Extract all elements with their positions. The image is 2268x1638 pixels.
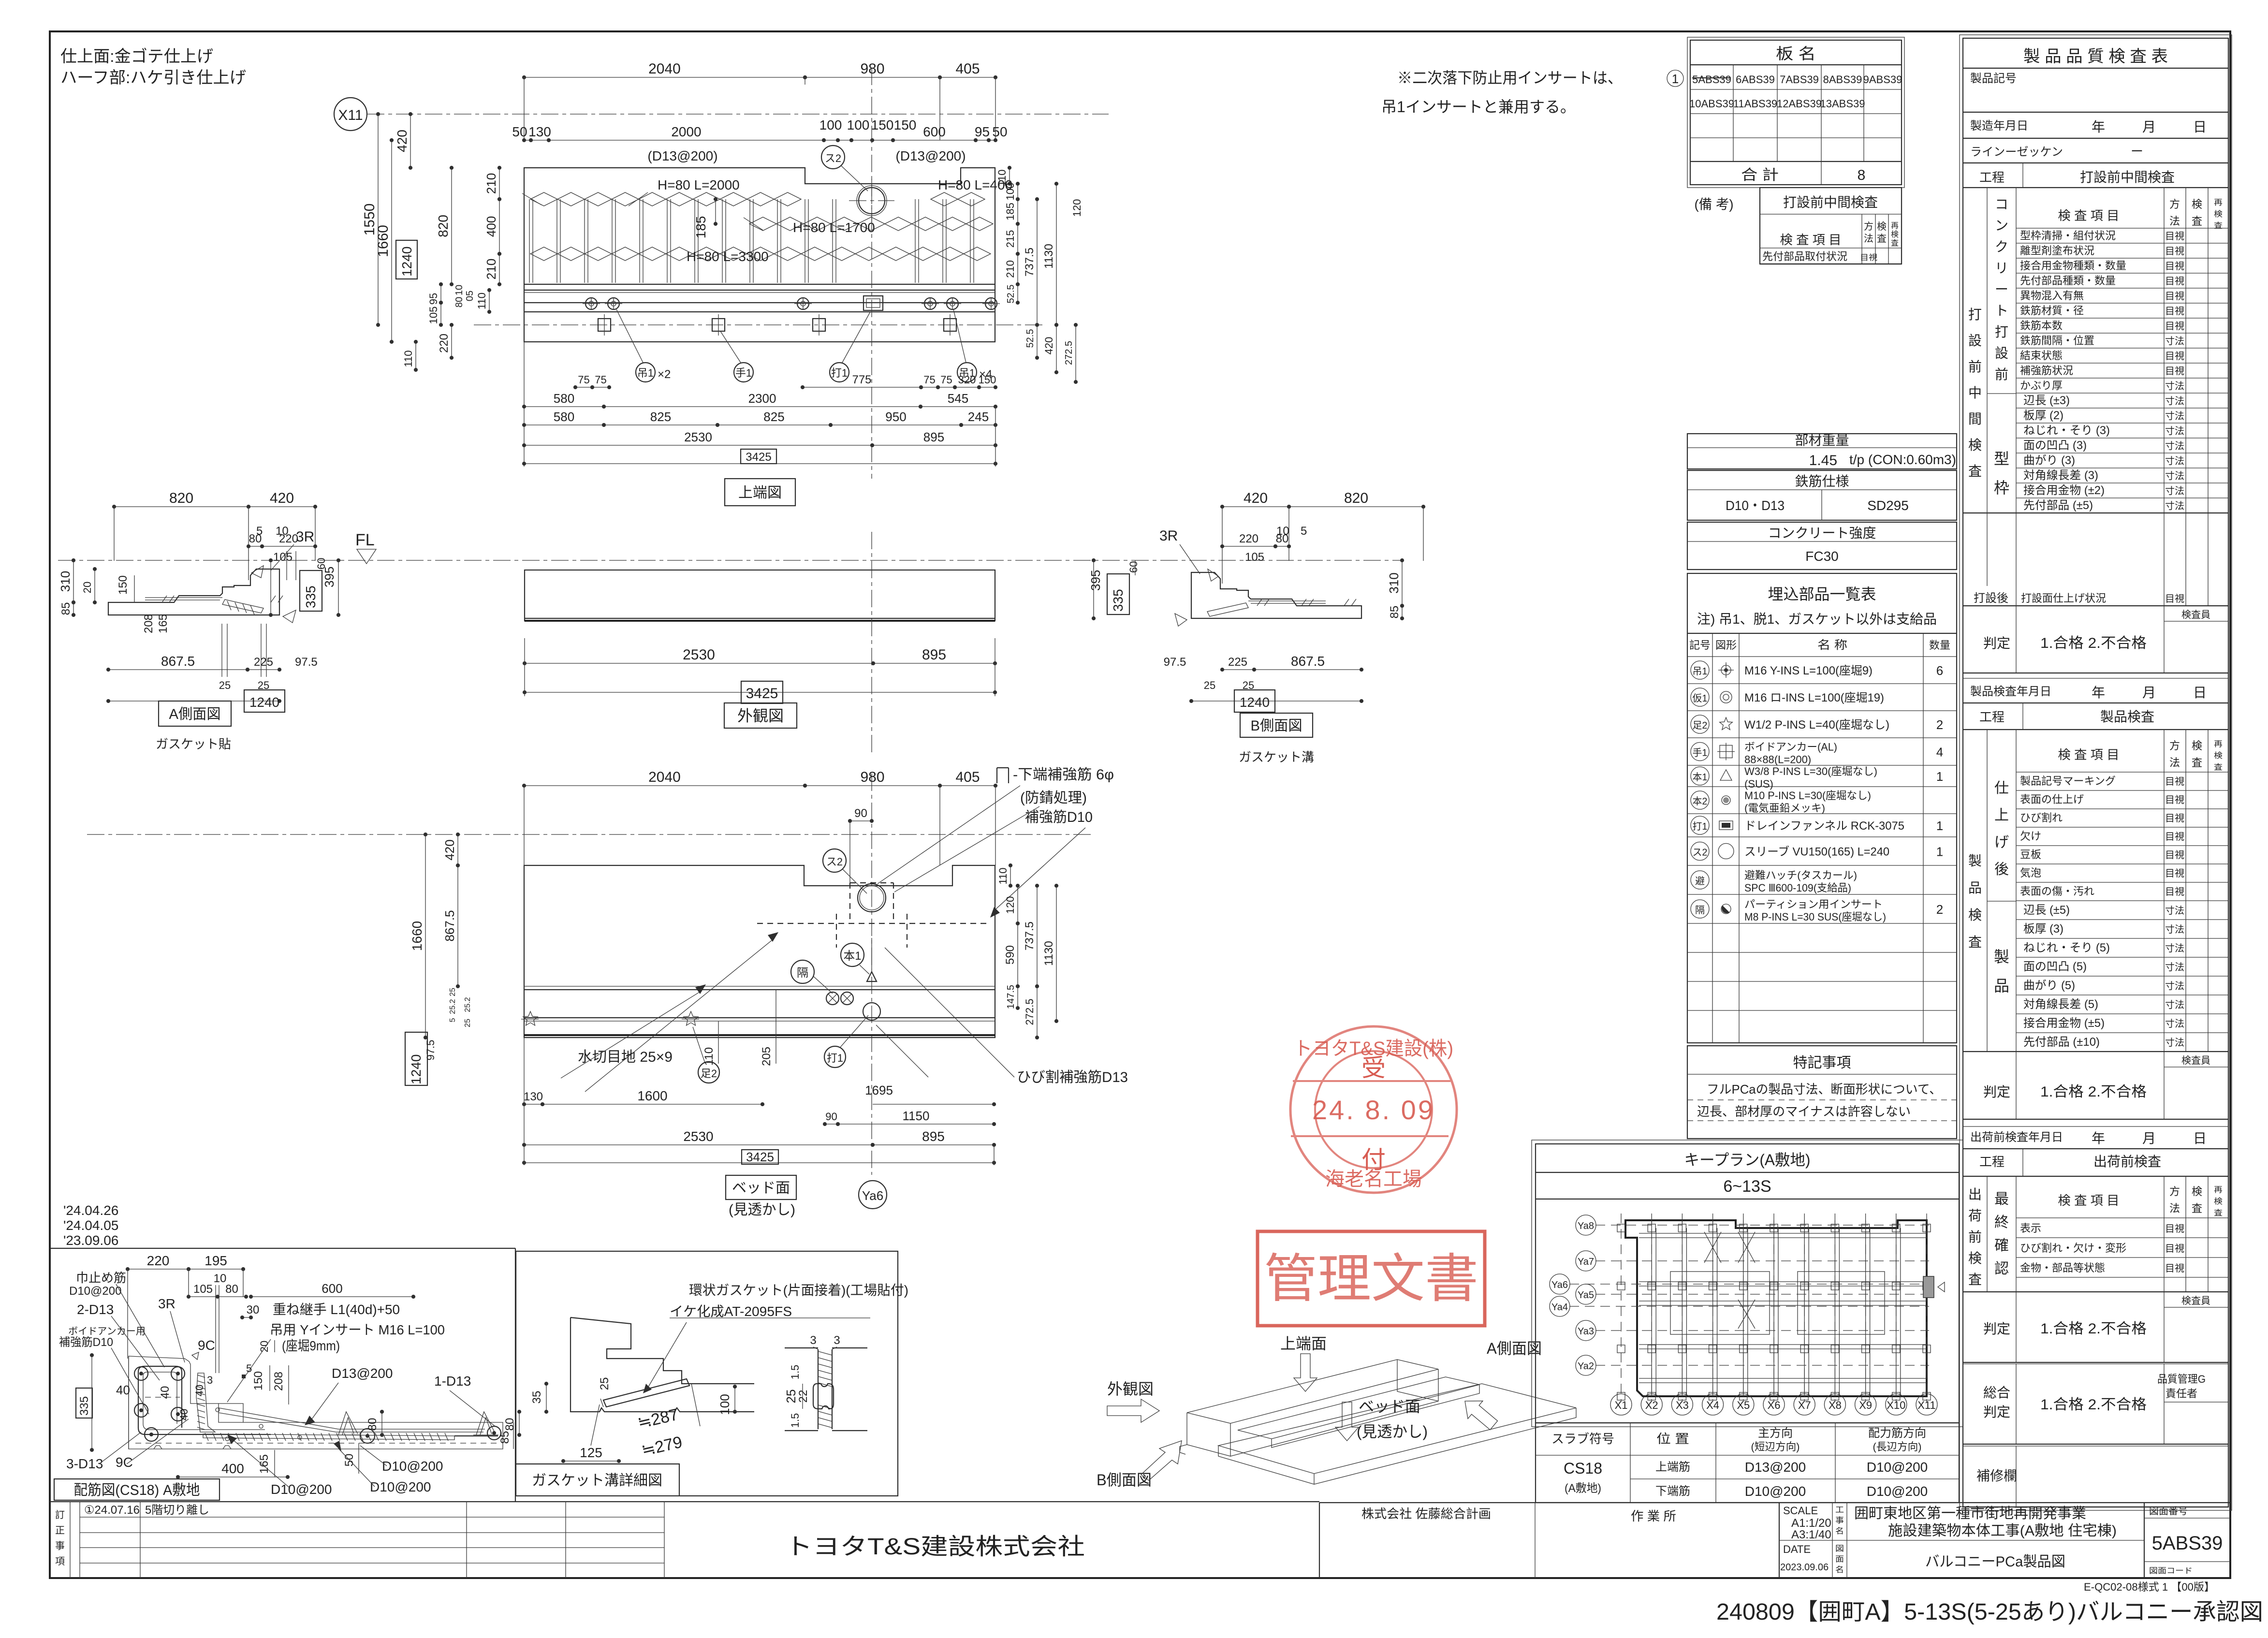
svg-text:上端筋: 上端筋 <box>1655 1461 1690 1474</box>
svg-text:12ABS39: 12ABS39 <box>1777 98 1822 110</box>
B-side half lines <box>1248 600 1326 601</box>
svg-text:目視: 目視 <box>2165 1243 2184 1254</box>
vertical labels matrix1 <box>1987 188 1988 586</box>
A-side top dims <box>114 506 249 507</box>
svg-text:1: 1 <box>1936 769 1943 784</box>
svg-text:75: 75 <box>578 374 589 386</box>
slab schedule table <box>1536 1423 1959 1503</box>
bottom band square symbols <box>598 319 611 331</box>
svg-text:1130: 1130 <box>1042 941 1055 966</box>
svg-text:環状ガスケット(片面接着)(工場貼付): 環状ガスケット(片面接着)(工場貼付) <box>689 1283 908 1298</box>
A-side bottom dims <box>108 669 248 670</box>
svg-text:寸法: 寸法 <box>2165 962 2184 973</box>
svg-text:寸法: 寸法 <box>2165 380 2184 392</box>
svg-text:工程: 工程 <box>1979 710 2005 724</box>
svg-text:867.5: 867.5 <box>1291 654 1325 669</box>
svg-text:訂: 訂 <box>55 1509 65 1521</box>
bed view centerlines <box>87 834 1093 835</box>
svg-text:(長辺方向): (長辺方向) <box>1873 1441 1922 1453</box>
svg-text:目視: 目視 <box>2165 813 2184 824</box>
svg-text:ス2: ス2 <box>1693 848 1708 858</box>
elevation label box <box>724 703 797 728</box>
svg-text:895: 895 <box>922 647 946 663</box>
svg-text:目視: 目視 <box>2165 366 2184 377</box>
bed bottom dims <box>524 1104 542 1105</box>
rebar top dims <box>128 1269 189 1270</box>
X11 grid circle <box>334 98 367 131</box>
plan hatch vertical ribs <box>529 199 530 283</box>
svg-text:検: 検 <box>2214 210 2223 219</box>
gasket cross-section shape <box>813 1384 834 1409</box>
svg-text:DATE: DATE <box>1783 1543 1811 1555</box>
plan right dims <box>1009 168 1010 184</box>
svg-text:(A敷地): (A敷地) <box>1565 1482 1601 1495</box>
svg-text:272.5: 272.5 <box>1064 341 1074 365</box>
svg-text:5階切り離し: 5階切り離し <box>145 1504 209 1517</box>
svg-text:Ya3: Ya3 <box>1578 1326 1594 1337</box>
svg-text:1.5: 1.5 <box>789 1365 801 1380</box>
svg-text:1600: 1600 <box>637 1088 667 1103</box>
svg-text:100: 100 <box>717 1394 732 1415</box>
svg-text:M8 P-INS L=30 SUS(座堀なし): M8 P-INS L=30 SUS(座堀なし) <box>1744 911 1886 923</box>
svg-text:ガスケット溝詳細図: ガスケット溝詳細図 <box>532 1473 662 1489</box>
svg-text:20: 20 <box>81 582 93 593</box>
svg-text:吊1: 吊1 <box>637 367 654 379</box>
svg-text:M16 Y-INS L=100(座堀9): M16 Y-INS L=100(座堀9) <box>1744 664 1873 677</box>
svg-text:打: 打 <box>1968 307 1982 322</box>
svg-text:2040: 2040 <box>648 769 681 785</box>
bottom bars with hatch strip <box>203 1434 454 1440</box>
plan label box 上端図 <box>725 479 795 506</box>
svg-text:位 置: 位 置 <box>1656 1432 1689 1446</box>
svg-text:950: 950 <box>885 409 906 424</box>
gasket detail label box <box>516 1464 679 1496</box>
svg-text:X11: X11 <box>338 107 363 123</box>
svg-text:420: 420 <box>395 130 410 152</box>
svg-text:150: 150 <box>252 1371 265 1390</box>
svg-text:5: 5 <box>246 1362 252 1375</box>
svg-text:75: 75 <box>923 374 935 386</box>
svg-text:目視: 目視 <box>2165 306 2184 317</box>
svg-text:1: 1 <box>1936 845 1943 859</box>
A-side label box <box>159 701 231 726</box>
svg-text:FL: FL <box>355 531 375 549</box>
svg-text:記号: 記号 <box>1689 639 1711 651</box>
svg-text:囲町東地区第一種市街地再開発事業: 囲町東地区第一種市街地再開発事業 <box>1854 1506 2086 1521</box>
svg-text:巾止め筋: 巾止め筋 <box>76 1271 126 1285</box>
svg-text:検: 検 <box>1877 221 1887 232</box>
svg-text:85: 85 <box>59 602 73 615</box>
svg-text:面の凹凸 (5): 面の凹凸 (5) <box>2023 960 2087 973</box>
svg-text:配筋図(CS18) A敷地: 配筋図(CS18) A敷地 <box>74 1482 200 1498</box>
svg-text:寸法: 寸法 <box>2165 470 2184 482</box>
svg-text:辺長 (±5): 辺長 (±5) <box>2023 904 2070 917</box>
svg-text:補強筋D10: 補強筋D10 <box>59 1336 113 1349</box>
svg-text:90: 90 <box>825 1111 837 1123</box>
svg-text:(見透かし): (見透かし) <box>1357 1423 1428 1440</box>
svg-text:方: 方 <box>2169 740 2180 752</box>
svg-text:D10@200: D10@200 <box>382 1459 443 1474</box>
svg-text:査: 査 <box>2192 1202 2202 1214</box>
spacer circles on bottom bars <box>360 1429 375 1443</box>
rebar stirrup inner <box>143 1372 265 1430</box>
svg-text:法: 法 <box>2169 1202 2180 1214</box>
key plan Ya grid <box>1595 1225 1929 1226</box>
svg-text:D10・D13: D10・D13 <box>1726 498 1785 513</box>
elevation centerline vert <box>871 532 872 754</box>
svg-text:980: 980 <box>860 769 884 785</box>
svg-text:10ABS39: 10ABS39 <box>1689 98 1734 110</box>
svg-text:辺長 (±3): 辺長 (±3) <box>2023 394 2070 407</box>
svg-text:バルコニーPCa製品図: バルコニーPCa製品図 <box>1925 1554 2065 1570</box>
svg-text:認: 認 <box>1994 1261 2009 1277</box>
svg-text:※二次落下防止用インサートは、: ※二次落下防止用インサートは、 <box>1397 69 1623 87</box>
svg-text:離型剤塗布状況: 離型剤塗布状況 <box>2020 245 2094 257</box>
svg-text:1240: 1240 <box>409 1054 424 1084</box>
svg-text:板厚 (3): 板厚 (3) <box>2023 922 2063 936</box>
svg-text:X9: X9 <box>1859 1399 1872 1411</box>
svg-text:配力筋方向: 配力筋方向 <box>1868 1427 1926 1440</box>
svg-text:コンクリート強度: コンクリート強度 <box>1768 526 1876 541</box>
svg-text:製 品 品 質 検 査 表: 製 品 品 質 検 査 表 <box>2023 47 2168 66</box>
svg-text:水切目地 25×9: 水切目地 25×9 <box>578 1049 673 1065</box>
key plan building outline <box>1625 1220 1927 1396</box>
svg-text:寸法: 寸法 <box>2165 336 2184 347</box>
svg-text:査: 査 <box>1891 239 1899 248</box>
svg-text:鉄筋本数: 鉄筋本数 <box>2020 320 2063 332</box>
svg-text:590: 590 <box>1004 945 1017 965</box>
chairs <box>338 1412 358 1435</box>
svg-text:X1: X1 <box>1615 1399 1628 1411</box>
svg-text:図面番号: 図面番号 <box>2149 1506 2188 1517</box>
svg-text:注) 吊1、脱1、ガスケット以外は支給品: 注) 吊1、脱1、ガスケット以外は支給品 <box>1697 612 1937 627</box>
bed leader 本1 <box>841 943 864 966</box>
svg-text:検査員: 検査員 <box>2181 1055 2210 1066</box>
svg-text:120: 120 <box>1071 199 1083 217</box>
drain rect symbol <box>863 296 883 310</box>
svg-text:板厚 (2): 板厚 (2) <box>2023 409 2063 422</box>
FL centerline across sheet <box>58 560 1402 561</box>
svg-text:100: 100 <box>819 117 842 132</box>
bed sleeve circle <box>858 884 886 912</box>
svg-text:対角線長差 (3): 対角線長差 (3) <box>2023 469 2098 482</box>
svg-text:X7: X7 <box>1798 1399 1811 1411</box>
svg-text:2-D13: 2-D13 <box>77 1302 114 1317</box>
svg-text:420: 420 <box>1043 337 1055 355</box>
svg-text:1150: 1150 <box>903 1109 930 1123</box>
designer cell <box>1535 1503 1536 1578</box>
svg-text:D10@200: D10@200 <box>370 1479 431 1494</box>
svg-text:表面の仕上げ: 表面の仕上げ <box>2020 793 2084 805</box>
svg-text:'23.09.06: '23.09.06 <box>63 1233 118 1248</box>
svg-text:目視: 目視 <box>2165 261 2184 272</box>
svg-text:M16 ロ-INS L=100(座堀19): M16 ロ-INS L=100(座堀19) <box>1744 691 1884 704</box>
svg-text:吊1: 吊1 <box>1693 666 1708 677</box>
leader circle 吊1x2 <box>636 363 655 382</box>
svg-text:寸法: 寸法 <box>2165 943 2184 954</box>
svg-text:(座堀9mm): (座堀9mm) <box>282 1338 340 1353</box>
judge row 3 <box>2164 1307 2228 1308</box>
svg-text:作 業 所: 作 業 所 <box>1631 1509 1676 1523</box>
svg-text:検: 検 <box>2192 1185 2202 1198</box>
svg-text:間: 間 <box>1968 411 1982 426</box>
svg-text:225: 225 <box>254 656 273 669</box>
svg-text:X3: X3 <box>1676 1399 1689 1411</box>
svg-text:50: 50 <box>512 124 527 139</box>
svg-text:査: 査 <box>1968 935 1982 950</box>
svg-text:ひび割れ・欠け・変形: ひび割れ・欠け・変形 <box>2020 1242 2126 1254</box>
svg-text:165: 165 <box>157 614 170 633</box>
svg-text:先付部品 (±5): 先付部品 (±5) <box>2023 499 2093 512</box>
svg-text:85: 85 <box>1388 606 1401 619</box>
svg-text:再: 再 <box>2214 1186 2223 1194</box>
svg-text:品質管理G: 品質管理G <box>2157 1373 2206 1385</box>
B-side section profile <box>1191 572 1361 618</box>
svg-text:20: 20 <box>258 1341 270 1352</box>
svg-text:法: 法 <box>2169 757 2180 769</box>
svg-text:製品記号: 製品記号 <box>1970 72 2017 85</box>
svg-text:荷: 荷 <box>1968 1208 1982 1223</box>
svg-text:3R: 3R <box>1159 528 1178 544</box>
svg-text:24. 8. 09: 24. 8. 09 <box>1312 1095 1435 1125</box>
svg-text:25: 25 <box>1204 679 1215 691</box>
svg-text:737.5: 737.5 <box>1023 248 1036 277</box>
bed leader 足2 <box>698 1062 719 1083</box>
svg-text:埋込部品一覧表: 埋込部品一覧表 <box>1768 585 1876 603</box>
svg-text:ク: ク <box>1995 239 2008 254</box>
svg-text:Ya6: Ya6 <box>1551 1280 1568 1290</box>
plan left dims 420/820 etc <box>410 114 411 168</box>
svg-text:品: 品 <box>1994 977 2009 994</box>
svg-text:9ABS39: 9ABS39 <box>1863 73 1902 86</box>
svg-text:80: 80 <box>503 1418 516 1431</box>
rebar label box <box>54 1479 219 1500</box>
svg-text:775: 775 <box>852 373 871 386</box>
svg-text:ひび割補強筋D13: ひび割補強筋D13 <box>1017 1069 1128 1085</box>
plan top dim row 2040/980/405 <box>524 77 805 78</box>
svg-text:前: 前 <box>1968 1229 1982 1244</box>
B-side label box <box>1240 713 1313 737</box>
svg-text:目視: 目視 <box>2165 321 2184 332</box>
svg-text:目視: 目視 <box>2165 776 2184 787</box>
svg-text:品: 品 <box>1968 880 1982 895</box>
plan band lines <box>524 284 995 285</box>
svg-text:2530: 2530 <box>683 647 715 663</box>
svg-text:1: 1 <box>1672 72 1679 86</box>
svg-text:30: 30 <box>247 1303 260 1316</box>
svg-text:鉄筋仕様: 鉄筋仕様 <box>1795 474 1849 489</box>
bed view outline with top notch <box>524 865 995 1038</box>
svg-text:(D13@200): (D13@200) <box>647 148 717 163</box>
svg-text:25: 25 <box>784 1389 798 1404</box>
key plan product location marker <box>1923 1276 1934 1298</box>
svg-text:110: 110 <box>702 1047 716 1066</box>
gasket strip slanted <box>603 1379 689 1407</box>
svg-text:335: 335 <box>1111 589 1126 612</box>
svg-text:外観図: 外観図 <box>1107 1380 1154 1398</box>
svg-text:リ: リ <box>1995 261 2008 276</box>
svg-text:名: 名 <box>1835 1527 1844 1536</box>
svg-text:1.45: 1.45 <box>1809 453 1837 468</box>
leader circle 吊1x4 <box>957 363 977 382</box>
svg-text:205: 205 <box>760 1047 773 1066</box>
svg-text:5ABS39: 5ABS39 <box>1692 73 1731 86</box>
svg-text:検: 検 <box>2214 751 2223 760</box>
svg-text:110: 110 <box>476 292 488 309</box>
svg-text:25.2: 25.2 <box>464 997 472 1012</box>
svg-text:ス2: ス2 <box>825 152 841 164</box>
isometric slab pictorial <box>1218 1384 1576 1474</box>
svg-text:225: 225 <box>1228 656 1247 669</box>
svg-text:SCALE: SCALE <box>1783 1505 1818 1517</box>
svg-text:25: 25 <box>598 1377 611 1390</box>
svg-text:主方向: 主方向 <box>1758 1427 1793 1440</box>
svg-text:D10@200: D10@200 <box>1745 1484 1806 1499</box>
svg-text:ボイドアンカー用: ボイドアンカー用 <box>68 1326 146 1337</box>
svg-text:E-QC02-08様式 1 【00版】: E-QC02-08様式 1 【00版】 <box>2084 1581 2215 1593</box>
svg-text:方: 方 <box>2169 198 2180 210</box>
svg-text:検: 検 <box>1968 907 1982 922</box>
svg-text:1.合格 2.不合格: 1.合格 2.不合格 <box>2040 635 2147 651</box>
A-side gasket strip <box>222 600 263 613</box>
total row <box>1690 161 1902 162</box>
svg-text:検査員: 検査員 <box>2181 1295 2210 1306</box>
svg-text:手1: 手1 <box>1693 747 1708 759</box>
rebar bar circles <box>134 1367 148 1380</box>
svg-text:検査員: 検査員 <box>2181 609 2210 620</box>
svg-text:査: 査 <box>2192 757 2202 769</box>
svg-text:150: 150 <box>871 117 894 132</box>
bed top dims <box>524 785 805 786</box>
svg-text:97.5: 97.5 <box>1164 656 1186 669</box>
svg-text:年: 年 <box>2092 119 2105 134</box>
key plan interior walls <box>1639 1237 1927 1238</box>
svg-text:補強筋状況: 補強筋状況 <box>2020 365 2073 377</box>
gasket joint detail right <box>818 1349 832 1429</box>
leader circle 手1 <box>734 363 753 382</box>
bed right dims <box>1010 865 1011 886</box>
svg-text:吊用 Yインサート M16 L=100: 吊用 Yインサート M16 L=100 <box>270 1322 445 1337</box>
B-side top dims <box>1222 506 1289 507</box>
svg-text:イケ化成AT-2095FS: イケ化成AT-2095FS <box>670 1304 792 1319</box>
svg-text:(SUS): (SUS) <box>1744 778 1773 790</box>
svg-text:6ABS39: 6ABS39 <box>1736 73 1775 86</box>
svg-text:ベッド面: ベッド面 <box>732 1180 790 1196</box>
svg-text:寸法: 寸法 <box>2165 999 2184 1010</box>
svg-text:X8: X8 <box>1829 1399 1842 1411</box>
svg-text:板 名: 板 名 <box>1776 45 1816 62</box>
svg-text:寸法: 寸法 <box>2165 425 2184 437</box>
svg-text:-下端補強筋 6φ: -下端補強筋 6φ <box>1013 767 1114 783</box>
svg-text:再: 再 <box>2214 740 2223 748</box>
ス2 leader bed <box>823 849 846 872</box>
svg-text:月: 月 <box>2142 119 2156 134</box>
svg-text:本1: 本1 <box>1693 772 1708 783</box>
svg-text:寸法: 寸法 <box>2165 410 2184 422</box>
svg-text:2: 2 <box>1936 902 1943 917</box>
svg-text:22: 22 <box>797 1390 810 1403</box>
svg-text:80: 80 <box>366 1418 379 1431</box>
svg-text:95: 95 <box>975 124 990 139</box>
svg-text:外観図: 外観図 <box>737 707 784 725</box>
svg-text:310: 310 <box>1387 572 1401 593</box>
elevation rectangle <box>525 570 995 621</box>
top bars sloping <box>219 1408 485 1429</box>
svg-text:D10@200: D10@200 <box>1867 1484 1928 1499</box>
svg-text:8ABS39: 8ABS39 <box>1823 73 1862 86</box>
svg-text:H=80 L=3300: H=80 L=3300 <box>687 249 769 264</box>
revision table <box>70 1502 71 1578</box>
judge row 1 <box>2164 621 2228 622</box>
svg-text:820: 820 <box>436 215 451 237</box>
svg-text:製品記号マーキング: 製品記号マーキング <box>2020 775 2116 787</box>
svg-text:737.5: 737.5 <box>1023 921 1036 951</box>
svg-text:再: 再 <box>1891 222 1899 230</box>
svg-text:Ya2: Ya2 <box>1578 1361 1594 1372</box>
circled 1 <box>1667 70 1683 87</box>
svg-text:げ: げ <box>1994 834 2009 850</box>
svg-text:曲がり (5): 曲がり (5) <box>2023 979 2075 992</box>
svg-text:210: 210 <box>1004 260 1016 278</box>
svg-text:(防錆処理): (防錆処理) <box>1020 790 1087 806</box>
bed star symbols 足2 <box>523 1011 538 1025</box>
svg-text:895: 895 <box>922 1129 945 1144</box>
svg-text:1240: 1240 <box>1240 695 1270 710</box>
svg-text:仕上面:金ゴテ仕上げ: 仕上面:金ゴテ仕上げ <box>60 47 213 66</box>
rebar step block <box>219 1404 243 1422</box>
svg-text:ー: ー <box>1995 282 2008 297</box>
svg-text:A1:1/20: A1:1/20 <box>1791 1517 1831 1530</box>
svg-text:545: 545 <box>948 391 968 406</box>
svg-text:Ya6: Ya6 <box>862 1188 883 1203</box>
svg-text:215: 215 <box>1004 230 1016 248</box>
svg-text:100: 100 <box>847 117 870 132</box>
svg-text:日: 日 <box>2193 685 2207 700</box>
svg-text:1-D13: 1-D13 <box>434 1374 471 1389</box>
svg-text:本2: 本2 <box>1693 796 1708 807</box>
svg-text:980: 980 <box>860 61 884 77</box>
svg-text:日: 日 <box>2193 119 2207 134</box>
svg-text:100: 100 <box>1004 183 1016 201</box>
svg-text:88×88(L=200): 88×88(L=200) <box>1744 754 1811 766</box>
svg-text:25: 25 <box>464 1019 472 1027</box>
svg-text:異物混入有無: 異物混入有無 <box>2020 290 2084 302</box>
svg-text:合 計: 合 計 <box>1741 167 1779 183</box>
svg-text:D10@200: D10@200 <box>271 1482 332 1497</box>
svg-text:52.5: 52.5 <box>1006 285 1016 304</box>
svg-text:80: 80 <box>249 532 262 545</box>
svg-text:設: 設 <box>1995 346 2008 361</box>
svg-text:事: 事 <box>55 1540 65 1551</box>
matrix1 header <box>2016 188 2017 586</box>
svg-text:査: 査 <box>1968 464 1982 479</box>
svg-text:事: 事 <box>1835 1516 1844 1525</box>
svg-text:1695: 1695 <box>865 1083 893 1097</box>
svg-text:1.5: 1.5 <box>789 1413 801 1428</box>
joint hatched strip vertical <box>196 1373 215 1432</box>
svg-text:25: 25 <box>219 679 231 691</box>
svg-text:165: 165 <box>258 1454 271 1474</box>
svg-text:面: 面 <box>1835 1555 1844 1564</box>
svg-text:B側面図: B側面図 <box>1251 718 1302 734</box>
svg-text:パーティション用インサート: パーティション用インサート <box>1744 898 1883 910</box>
svg-text:60: 60 <box>315 558 327 570</box>
svg-text:Ya4: Ya4 <box>1551 1302 1568 1313</box>
svg-text:867.5: 867.5 <box>442 910 457 941</box>
rebar detail concrete outline <box>129 1356 503 1449</box>
svg-text:対角線長差 (5): 対角線長差 (5) <box>2023 998 2098 1011</box>
svg-text:185: 185 <box>693 216 708 239</box>
